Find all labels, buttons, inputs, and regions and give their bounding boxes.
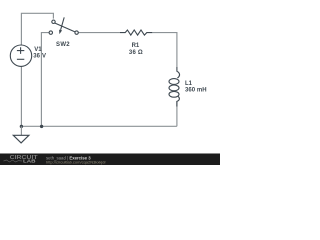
inductor L1 xyxy=(169,67,180,107)
label L1 value xyxy=(185,81,207,94)
wire R1 to top right corner down to L1 xyxy=(152,33,177,67)
resistor R1 xyxy=(120,30,152,35)
voltage source V1 xyxy=(10,45,31,66)
svg-text:L1: L1 xyxy=(185,81,193,87)
svg-text:V1: V1 xyxy=(34,47,42,53)
wire SW2 left throw down to bottom rail xyxy=(41,33,49,127)
footer CircuitLab logo xyxy=(4,155,38,165)
wire top rail from V1 to SW2 xyxy=(21,13,53,45)
svg-text:R1: R1 xyxy=(132,43,140,49)
junction dot at V1/ground xyxy=(20,125,23,128)
svg-text:36 V: 36 V xyxy=(33,53,46,59)
label R1 value xyxy=(129,43,143,56)
switch SW2 actuator arrowhead xyxy=(59,30,62,34)
ground xyxy=(13,126,29,143)
switch SW2 xyxy=(49,17,78,34)
wire V1 bottom to ground rail xyxy=(20,66,22,126)
svg-text:36 Ω: 36 Ω xyxy=(129,50,143,56)
svg-text:http://circuitlab.com/cqa2N3kx: http://circuitlab.com/cqa2N3kxkjdr xyxy=(46,160,106,165)
svg-text:SW2: SW2 xyxy=(56,42,70,48)
label V1 value xyxy=(33,47,46,59)
junction dot at SW2 branch xyxy=(40,125,43,128)
wire L1 bottom to bottom rail xyxy=(176,101,178,126)
footer bar xyxy=(0,154,220,166)
svg-text:360 mH: 360 mH xyxy=(185,88,207,94)
svg-text:LAB: LAB xyxy=(23,159,36,165)
wire bottom rail xyxy=(21,125,177,127)
wire SW2 common to R1 xyxy=(78,32,120,34)
